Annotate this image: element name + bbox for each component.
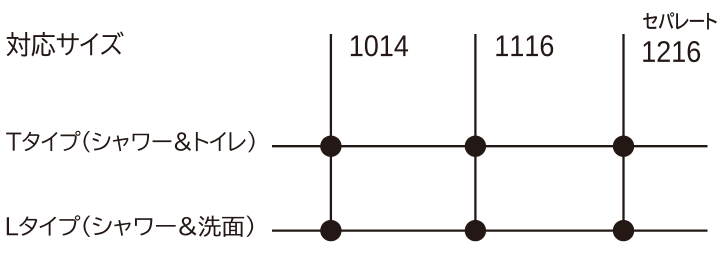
dot row 2 col 1: [320, 220, 341, 241]
label 対応サイズ: [7, 32, 124, 57]
dot row 1 col 1: [320, 136, 341, 157]
horizontal line row 2: [272, 229, 708, 231]
vertical line column 1: [330, 34, 332, 231]
dot row 1 col 2: [465, 136, 486, 157]
dot row 2 col 3: [613, 220, 634, 241]
horizontal line row 1: [272, 145, 708, 147]
size 1216: [643, 41, 700, 62]
dot row 2 col 2: [465, 220, 486, 241]
vertical line column 2: [474, 34, 476, 231]
row label Lタイプ(シャワー&amp;洗面): [7, 215, 253, 237]
size 1116: [496, 35, 553, 56]
vertical line column 3: [622, 34, 624, 231]
row label Tタイプ(シャワー&amp;トイレ): [6, 131, 254, 153]
dot row 1 col 3: [613, 136, 634, 157]
label セパレート: [643, 12, 717, 29]
size 1014: [351, 35, 408, 56]
